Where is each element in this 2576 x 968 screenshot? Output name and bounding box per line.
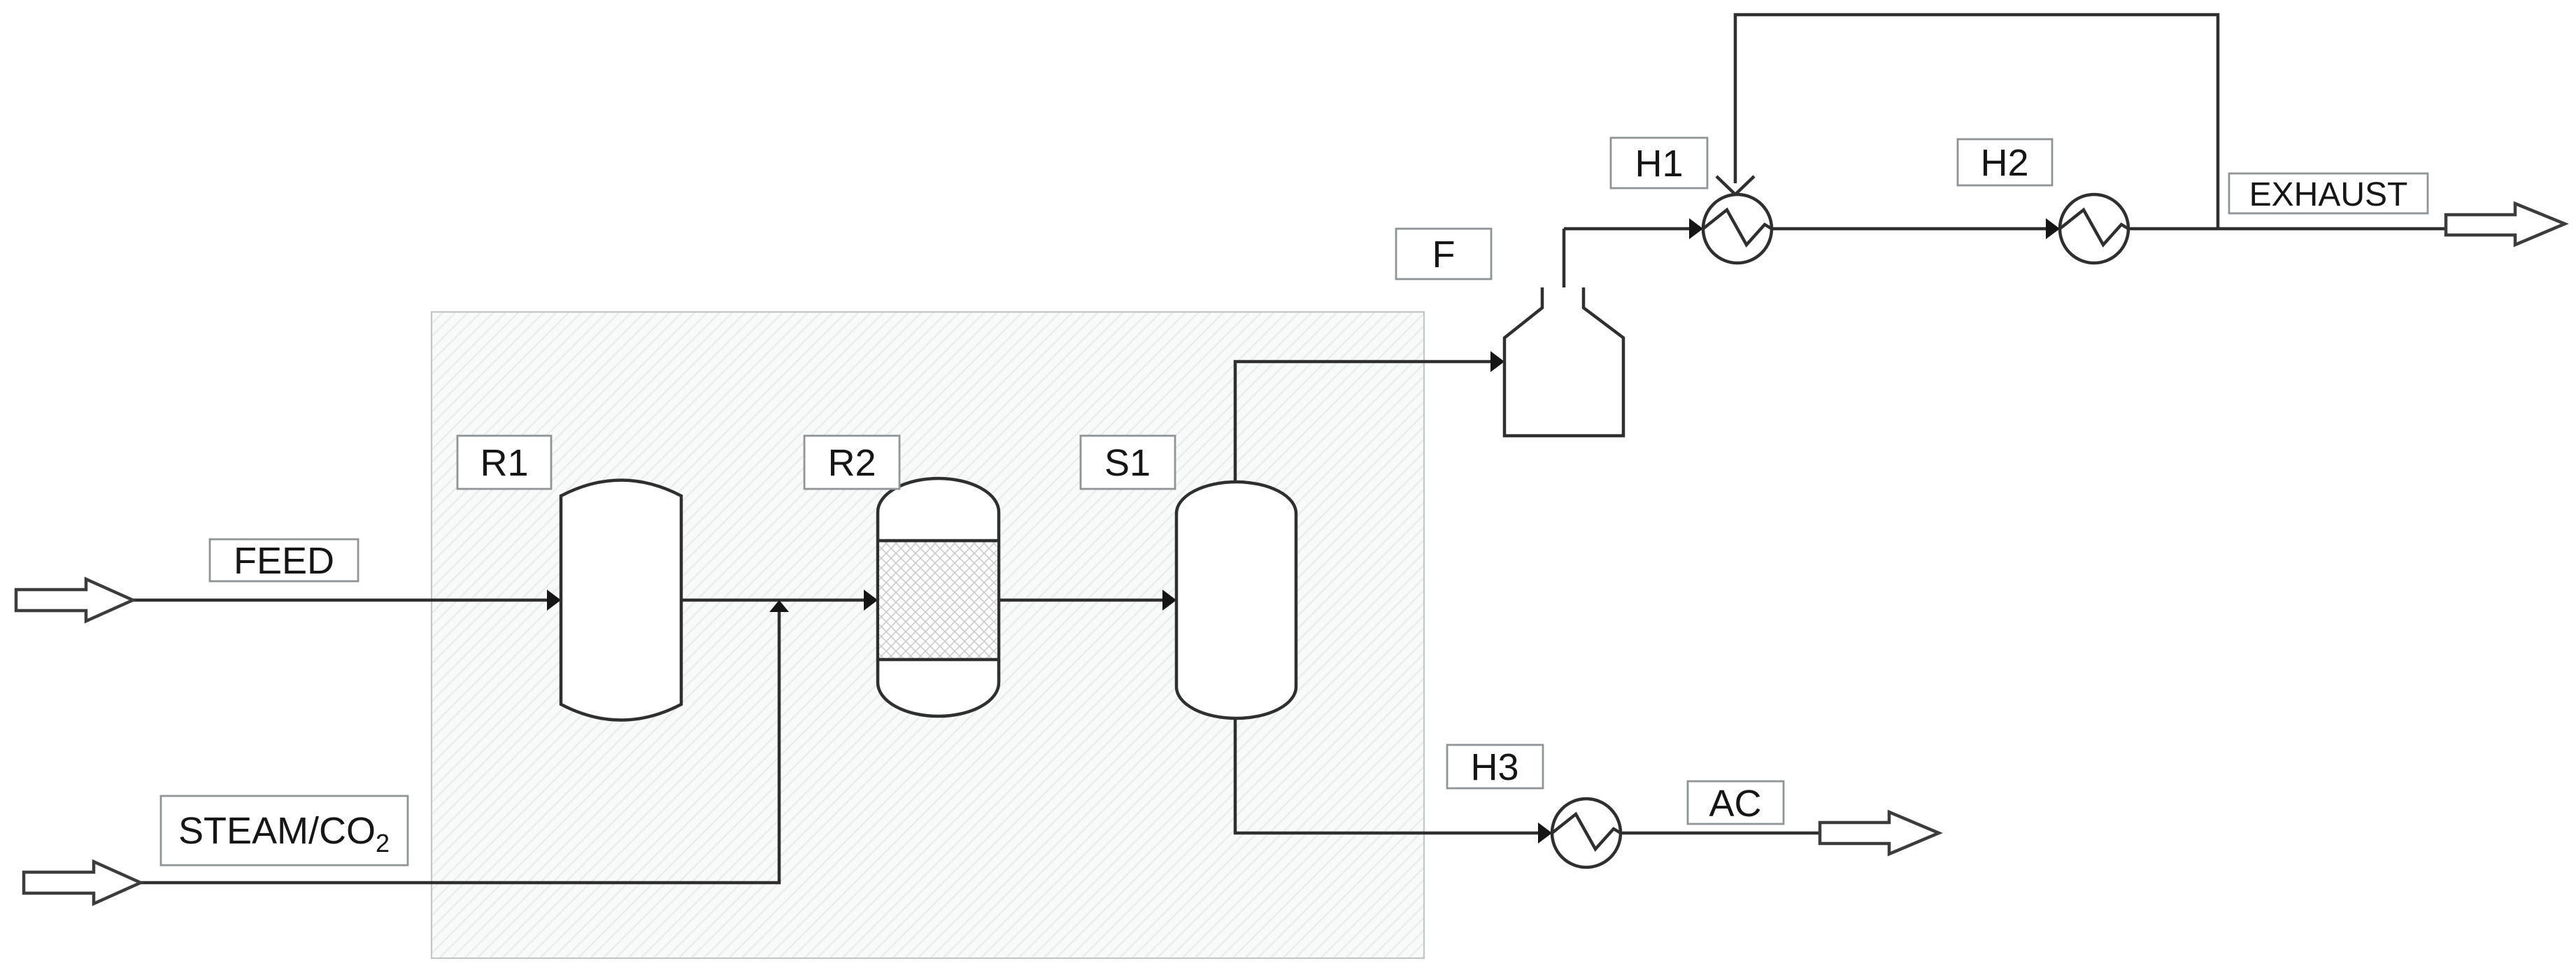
svg-text:R1: R1	[480, 442, 528, 484]
svg-text:S1: S1	[1104, 442, 1151, 484]
svg-text:R2: R2	[827, 442, 876, 484]
svg-text:AC: AC	[1709, 783, 1761, 825]
svg-text:H3: H3	[1470, 746, 1518, 788]
svg-text:F: F	[1432, 234, 1456, 276]
svg-text:STEAM/CO2: STEAM/CO2	[178, 810, 390, 857]
svg-text:H1: H1	[1635, 143, 1683, 185]
svg-text:H2: H2	[1980, 142, 2028, 184]
svg-text:FEED: FEED	[234, 540, 334, 582]
svg-text:EXHAUST: EXHAUST	[2249, 176, 2408, 213]
